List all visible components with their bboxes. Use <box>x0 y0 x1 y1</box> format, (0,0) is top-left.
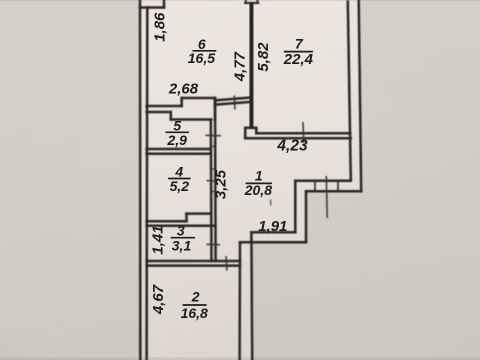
wire corridor wall left line <box>210 120 213 262</box>
wire room5 top step <box>170 112 173 120</box>
building footprint (apartment interior) <box>140 0 362 360</box>
wire right wall inner <box>348 2 351 181</box>
wire room5 bottom wall upper line <box>147 148 211 151</box>
wire room3 top wall <box>147 225 216 228</box>
wire hall stair outer vertical <box>305 191 308 242</box>
wall divider rooms 6/7 solid <box>249 3 253 129</box>
wire corridor wall jog 2 <box>211 191 215 193</box>
wire hall stair outer horizontal <box>306 190 361 193</box>
wire room6 bottom step <box>180 98 183 106</box>
node room 2 label <box>181 288 208 321</box>
wire hall bottom inner horizontal <box>251 231 295 234</box>
wire top-left notch horizontal <box>140 6 164 9</box>
wire left inner wall <box>145 8 148 360</box>
top edge shadow <box>0 0 480 1</box>
wire room7 block top <box>245 127 256 130</box>
wire stair wall stub 2 <box>337 181 339 192</box>
wire hall stair inner vertical <box>294 181 297 233</box>
wire left outer wall <box>139 0 142 360</box>
wire room7 bottom wall lower line <box>245 137 351 140</box>
wire room4 bottom wall left <box>147 220 187 223</box>
wire room7 block left <box>244 128 247 139</box>
wire hall stair inner horizontal <box>295 180 351 183</box>
wire right wall outer <box>359 0 362 191</box>
wire room5 top wall right part <box>171 118 211 121</box>
wire room2 right wall outer <box>250 232 253 360</box>
node room 4 label <box>168 164 191 195</box>
wire top-left notch stub <box>163 0 166 8</box>
wire corridor wall jog 1 <box>211 146 215 148</box>
wire room7 bottom wall upper line <box>256 132 350 135</box>
bottom edge shadow <box>0 357 480 360</box>
wire room2 top wall upper line <box>147 260 240 263</box>
wire room7 block right <box>255 128 258 134</box>
wire corridor wall jog 3 <box>211 168 215 170</box>
wire hall bottom outer horizontal <box>240 241 306 244</box>
wire stair wall stub 1 <box>314 181 316 192</box>
tick dim 4.23 on room7 bottom wall <box>302 122 305 144</box>
wire room4 bottom step <box>185 214 188 222</box>
wall divider rooms 6/7 cap <box>245 2 258 4</box>
tick door room4 <box>207 180 217 182</box>
tick door room2 <box>225 256 228 271</box>
tick stray mark below room1 label <box>270 200 272 206</box>
wall divider cap stub left <box>245 0 247 3</box>
wire room6 bottom wall right part <box>182 97 215 100</box>
wire room5 top wall left part <box>147 111 171 114</box>
node room 5 label <box>166 117 190 148</box>
tick door room5 <box>206 134 222 137</box>
wire corridor wall right line <box>214 98 217 261</box>
node room 1 label <box>244 168 272 198</box>
wire room2 top wall lower line <box>147 264 240 267</box>
wire hall top wall upper line <box>215 98 250 101</box>
node room 7 label <box>283 36 314 69</box>
node room 6 label <box>188 36 217 66</box>
wire room2 right wall inner <box>238 242 241 360</box>
wall divider cap stub right <box>257 0 259 3</box>
wire room6 bottom wall left part <box>147 105 182 108</box>
tick dim 1.91 on stair wall <box>325 176 328 218</box>
wire hall top wall lower line <box>215 102 250 105</box>
wire room5 bottom wall lower line <box>147 153 211 156</box>
tick door room3 <box>207 243 221 245</box>
tick door room6 from hall <box>233 96 236 110</box>
wire corridor wall top piece <box>214 98 217 120</box>
wire room4 bottom wall right <box>187 212 211 215</box>
node room 3 label <box>171 223 195 254</box>
